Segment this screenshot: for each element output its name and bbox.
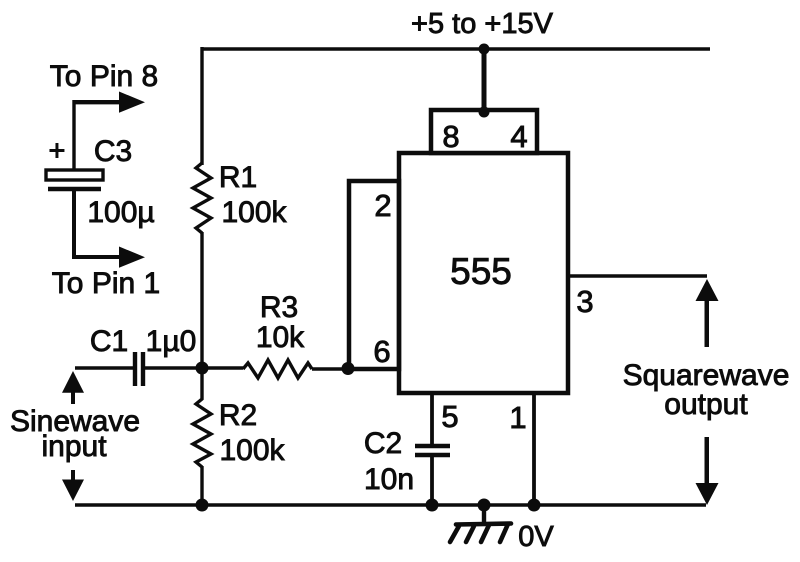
svg-text:+: + (49, 135, 66, 167)
junction dot on power rail (479, 44, 490, 55)
IC 555 body (399, 153, 568, 393)
junction node at C1/R1/R2 (196, 362, 209, 375)
wire C1 to node (145, 366, 243, 369)
resistor R3 (243, 360, 312, 378)
resistor R2 (193, 369, 211, 467)
svg-text:+5 to +15V: +5 to +15V (411, 8, 554, 40)
wire power drop to IC (482, 49, 487, 112)
svg-text:100µ: 100µ (87, 196, 154, 229)
capacitor C3 (electrolytic) (46, 170, 103, 189)
svg-text:5: 5 (441, 399, 458, 434)
junction dot at pin 6 node (342, 362, 355, 375)
svg-text:C3: C3 (94, 135, 132, 168)
ground stem wire (482, 505, 486, 524)
IC side box pins 2 and 6 (349, 181, 399, 369)
svg-text:To Pin 8: To Pin 8 (50, 60, 158, 93)
svg-text:100k: 100k (219, 434, 285, 467)
svg-text:3: 3 (576, 284, 593, 319)
arrow to pin 1 (119, 247, 145, 268)
IC top box pins 8 and 4 (431, 110, 537, 153)
svg-text:R1: R1 (219, 161, 257, 194)
arrow input up (62, 371, 84, 404)
junction dot pin 1 at rail (528, 499, 541, 512)
junction dot ground at rail (478, 499, 491, 512)
svg-text:100k: 100k (221, 196, 287, 229)
wire C3 top lead (72, 100, 75, 170)
arrow output up (696, 279, 719, 347)
svg-text:0V: 0V (518, 521, 554, 553)
wire R1 to input node (200, 232, 203, 369)
svg-text:R2: R2 (219, 399, 257, 432)
svg-text:R3: R3 (260, 291, 298, 324)
wire R3 to pin 6 node (312, 367, 349, 370)
svg-text:1µ0: 1µ0 (146, 325, 197, 358)
wire top power rail (202, 47, 710, 50)
svg-text:8: 8 (442, 119, 459, 154)
svg-text:To Pin 1: To Pin 1 (52, 267, 160, 300)
junction dot C2 at rail (426, 499, 439, 512)
svg-text:10n: 10n (364, 463, 414, 496)
svg-text:output: output (664, 388, 748, 421)
svg-text:4: 4 (510, 119, 527, 154)
wire pin 1 to rail (532, 393, 536, 506)
resistor R1 (193, 163, 211, 233)
svg-text:6: 6 (373, 334, 390, 369)
capacitor C2 (415, 446, 450, 455)
svg-text:input: input (41, 430, 107, 463)
capacitor C1 (135, 352, 143, 386)
wire C2 to bottom rail (430, 455, 434, 506)
svg-text:C1: C1 (90, 325, 128, 358)
svg-text:2: 2 (374, 188, 391, 223)
wire sinewave input (75, 366, 133, 369)
wire R2 to bottom rail (200, 466, 203, 505)
arrow input down (62, 470, 84, 501)
svg-text:10k: 10k (256, 321, 305, 354)
wire C3 bottom lead (74, 191, 119, 257)
wire pin 3 output (568, 274, 707, 277)
wire pin 5 (430, 393, 434, 447)
svg-text:1: 1 (509, 400, 526, 435)
wire bottom rail (75, 503, 706, 506)
arrow output down (696, 437, 719, 505)
ground symbol (450, 524, 511, 543)
svg-text:555: 555 (450, 251, 512, 292)
junction dot R2 at bottom rail (196, 499, 209, 512)
arrow to pin 8 (74, 92, 145, 113)
svg-text:C2: C2 (364, 427, 402, 460)
wire left vertical from rail to R1 (200, 47, 203, 165)
junction dot at IC top box (479, 107, 490, 118)
